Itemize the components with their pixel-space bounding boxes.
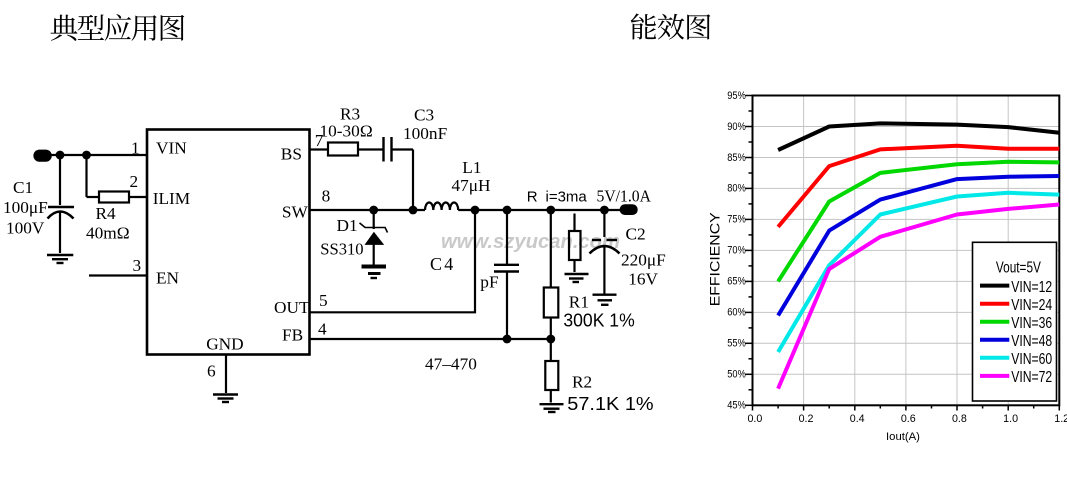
svg-text:Iout(A): Iout(A) <box>886 431 920 443</box>
wire FB pin4 <box>310 338 551 340</box>
svg-text:45%: 45% <box>727 400 746 412</box>
svg-text:55%: 55% <box>727 338 746 350</box>
svg-text:VIN=36: VIN=36 <box>1011 315 1052 332</box>
svg-text:VIN=48: VIN=48 <box>1011 333 1052 350</box>
curve VIN=24 <box>778 146 1059 227</box>
resistor R4 <box>87 155 148 203</box>
resistor R3 <box>328 143 383 156</box>
diode D1 <box>360 210 388 265</box>
legend entry VIN=36 <box>980 320 1009 324</box>
ground C1 <box>47 255 73 263</box>
svg-text:0.6: 0.6 <box>901 413 916 425</box>
wire OUT pin5 loop <box>310 210 476 312</box>
chart frame <box>753 96 1060 406</box>
svg-text:60%: 60% <box>727 307 746 319</box>
legend entry VIN=48 <box>980 338 1009 342</box>
capacitor C3 <box>384 137 392 162</box>
legend entry VIN=12 <box>980 284 1009 288</box>
resistor R1 <box>544 210 559 339</box>
svg-text:3: 3 <box>133 256 142 275</box>
node junction C1 <box>56 151 65 160</box>
node junction FB/R1/R2 <box>546 335 555 344</box>
svg-text:SW: SW <box>282 203 309 222</box>
svg-text:1.0: 1.0 <box>1003 413 1018 425</box>
curve VIN=48 <box>778 176 1059 316</box>
chart x tick labels <box>747 413 1067 425</box>
svg-text:SS310: SS310 <box>320 240 363 259</box>
wire GND pin6 <box>225 355 227 394</box>
svg-text:16V: 16V <box>628 270 658 289</box>
svg-text:ILIM: ILIM <box>153 189 190 208</box>
svg-text:BS: BS <box>281 145 302 164</box>
svg-text:1.2: 1.2 <box>1054 413 1067 425</box>
wire C3 to SW <box>392 150 414 211</box>
svg-text:80%: 80% <box>727 183 746 195</box>
svg-text:OUT: OUT <box>274 298 310 317</box>
svg-text:2: 2 <box>130 172 139 191</box>
svg-text:EFFICIENCY: EFFICIENCY <box>706 212 722 307</box>
capacitor C4 <box>494 210 519 339</box>
legend box <box>973 242 1057 401</box>
svg-text:85%: 85% <box>727 152 746 164</box>
svg-text:220μF: 220μF <box>621 251 666 270</box>
svg-text:100μF: 100μF <box>3 198 48 217</box>
svg-text:VIN=72: VIN=72 <box>1011 369 1052 386</box>
title 典型应用图 <box>51 14 185 41</box>
svg-text:47μH: 47μH <box>452 176 491 195</box>
svg-text:VIN=12: VIN=12 <box>1011 279 1052 296</box>
resistor R dummy load <box>569 214 581 273</box>
wire SW rail <box>310 209 426 211</box>
svg-text:10-30Ω: 10-30Ω <box>320 122 373 141</box>
svg-text:C4: C4 <box>430 254 453 274</box>
svg-text:D1: D1 <box>337 216 358 235</box>
svg-text:50%: 50% <box>727 369 746 381</box>
svg-text:R4: R4 <box>96 204 117 223</box>
svg-text:90%: 90% <box>727 121 746 133</box>
svg-text:pF: pF <box>480 272 498 291</box>
wire EN pin3 <box>89 274 147 276</box>
circuit text labels <box>3 105 666 392</box>
ground R2 <box>540 404 564 412</box>
svg-text:0.8: 0.8 <box>952 413 967 425</box>
svg-text:EN: EN <box>156 269 180 288</box>
node junction C2 <box>600 206 609 215</box>
curve VIN=60 <box>778 193 1059 352</box>
svg-text:75%: 75% <box>727 214 746 226</box>
node junction OUT loop <box>471 206 480 215</box>
wire VIN input rail <box>50 154 147 156</box>
wire BS pin7 <box>310 148 329 150</box>
svg-text:C3: C3 <box>414 106 434 125</box>
ground D1 <box>362 267 387 279</box>
node junction R4 <box>82 151 91 160</box>
svg-text:VIN: VIN <box>156 139 187 158</box>
svg-text:95%: 95% <box>727 90 746 102</box>
svg-text:47–470: 47–470 <box>425 355 477 374</box>
svg-text:300K 1%: 300K 1% <box>563 309 634 330</box>
svg-text:0.4: 0.4 <box>850 413 865 425</box>
chart y ticks <box>746 96 753 406</box>
curve VIN=36 <box>778 162 1059 282</box>
legend entry VIN=72 <box>980 374 1009 378</box>
svg-text:L1: L1 <box>462 158 481 177</box>
svg-text:1: 1 <box>131 139 140 158</box>
ground C2 <box>593 295 617 305</box>
svg-text:8: 8 <box>322 187 331 206</box>
capacitor C1 <box>48 155 75 253</box>
node junction D1 <box>369 206 378 215</box>
svg-text:40mΩ: 40mΩ <box>86 223 130 242</box>
svg-text:57.1K 1%: 57.1K 1% <box>567 393 653 414</box>
svg-text:FB: FB <box>282 326 303 345</box>
svg-text:100nF: 100nF <box>403 124 447 143</box>
curve VIN=12 <box>778 123 1059 150</box>
node junction C4/FB <box>503 335 512 344</box>
svg-text:C2: C2 <box>626 224 646 243</box>
node junction C4 <box>503 206 512 215</box>
IC U1 box <box>147 130 310 355</box>
node junction R1 <box>546 206 555 215</box>
svg-text:GND: GND <box>206 335 243 354</box>
svg-text:Vout=5V: Vout=5V <box>996 260 1041 277</box>
svg-text:100V: 100V <box>6 219 45 238</box>
svg-text:VIN=24: VIN=24 <box>1011 297 1052 314</box>
chart x ticks <box>753 405 1060 410</box>
svg-text:5V/1.0A: 5V/1.0A <box>597 187 652 206</box>
wire output rail <box>458 209 621 211</box>
resistor R2 <box>545 339 558 403</box>
chart y tick labels <box>727 90 746 412</box>
svg-text:VIN=60: VIN=60 <box>1011 351 1052 368</box>
svg-text:5: 5 <box>319 291 328 310</box>
svg-text:R: R <box>527 189 538 206</box>
svg-text:R2: R2 <box>572 372 592 391</box>
curve VIN=72 <box>778 205 1059 389</box>
ground IC <box>213 395 238 403</box>
svg-text:6: 6 <box>207 361 216 380</box>
capacitor C2 <box>590 210 620 294</box>
inductor L1 <box>425 203 458 210</box>
ground R load <box>565 274 589 282</box>
legend entry VIN=60 <box>980 356 1009 360</box>
input terminal <box>33 150 51 162</box>
svg-text:C1: C1 <box>13 178 33 197</box>
svg-text:65%: 65% <box>727 276 746 288</box>
svg-text:4: 4 <box>318 319 327 338</box>
svg-text:i=3ma: i=3ma <box>546 189 588 206</box>
title 能效图 <box>631 13 711 39</box>
svg-text:70%: 70% <box>727 245 746 257</box>
output terminal <box>620 204 638 215</box>
node junction C3/SW <box>409 206 418 215</box>
chart gridlines <box>753 96 1060 406</box>
legend entry VIN=24 <box>980 302 1009 306</box>
svg-text:0.0: 0.0 <box>747 413 762 425</box>
svg-text:0.2: 0.2 <box>799 413 814 425</box>
